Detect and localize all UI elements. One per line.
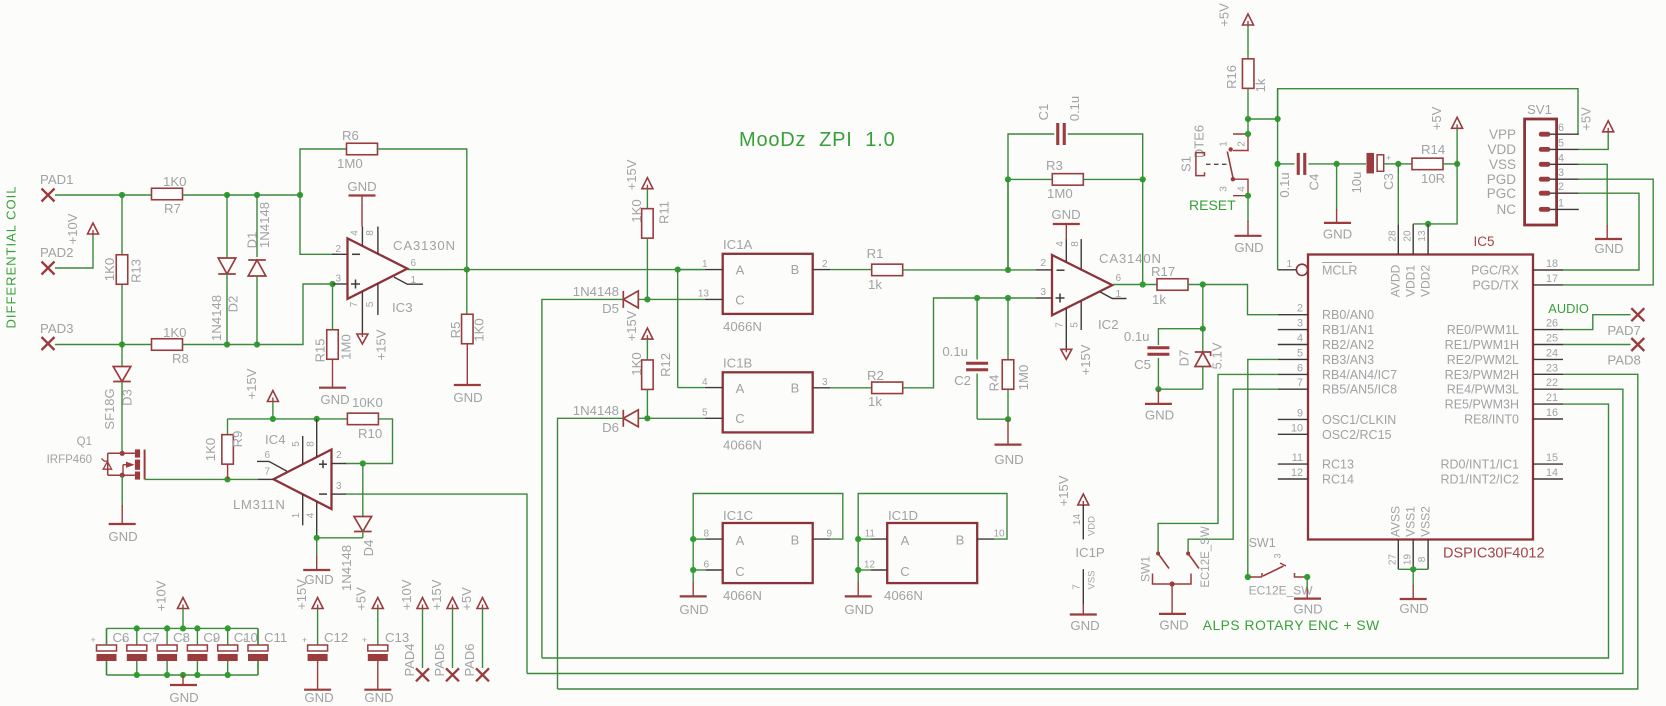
capacitor C9: [194, 625, 200, 631]
ground under push switch: [1294, 597, 1321, 599]
resistor R2: [872, 382, 903, 394]
svg-text:IC5: IC5: [1474, 234, 1495, 249]
svg-text:2: 2: [1297, 303, 1303, 315]
svg-text:+5V: +5V: [1429, 106, 1444, 130]
svg-text:RE5/PWM3H: RE5/PWM3H: [1445, 398, 1519, 412]
wire SV1 VSS to ground: [1579, 164, 1607, 226]
node junction C3 / AVDD: [1395, 161, 1401, 167]
wire IC2 output: [1112, 284, 1157, 286]
svg-text:3: 3: [1297, 318, 1303, 330]
IC1C pin 9 output: [813, 538, 830, 540]
IC5 top power pins AVDD VDD1 VDD2: [1397, 225, 1399, 255]
svg-text:CA3130N: CA3130N: [393, 238, 456, 253]
wire RE1 to PAD8: [1563, 344, 1631, 346]
svg-text:4066N: 4066N: [723, 438, 762, 453]
svg-text:C12: C12: [324, 630, 348, 645]
svg-text:A: A: [736, 533, 745, 548]
resistor R15: [332, 284, 334, 330]
wire R17 to RB0: [1188, 285, 1278, 315]
node junction R4 top: [1005, 295, 1011, 301]
IC5 pin 11 RC13: [1278, 463, 1308, 465]
capacitor C11: [257, 628, 259, 645]
svg-text:1: 1: [1286, 259, 1292, 270]
svg-text:C5: C5: [1134, 357, 1151, 372]
IC3 pin 7: [361, 291, 363, 334]
svg-text:R1: R1: [867, 246, 884, 261]
pad PAD7: [1631, 308, 1644, 321]
svg-text:RE1/PWM1H: RE1/PWM1H: [1445, 338, 1519, 352]
wire PAD4: [422, 609, 424, 669]
svg-text:MCLR: MCLR: [1322, 264, 1357, 278]
wire push switch to ground: [1306, 577, 1308, 590]
IC5 pin 22 RE4/PWM3L: [1533, 388, 1563, 390]
wire R11 to D5 node: [646, 238, 648, 299]
wire IC5 RB3 to push switch: [1248, 359, 1278, 577]
svg-text:GND: GND: [1594, 241, 1623, 256]
svg-text:7: 7: [264, 467, 270, 478]
svg-text:VDD1: VDD1: [1404, 265, 1418, 297]
svg-text:2: 2: [335, 244, 341, 255]
wire IC1B input riser: [677, 270, 679, 388]
IC2 pin 8: [1080, 239, 1082, 269]
supply +10V arrow cap bank: [178, 598, 189, 609]
svg-text:GND: GND: [453, 390, 482, 405]
svg-text:1N4148: 1N4148: [339, 545, 354, 591]
capacitor C8: [164, 625, 170, 631]
capacitor C1: [1008, 134, 1054, 270]
svg-text:+: +: [212, 635, 217, 645]
svg-text:4: 4: [1237, 186, 1248, 192]
svg-text:IC1A: IC1A: [723, 237, 753, 252]
svg-text:RESET: RESET: [1189, 197, 1236, 213]
svg-text:PGD/TX: PGD/TX: [1472, 278, 1519, 292]
svg-text:+15V: +15V: [1056, 475, 1071, 506]
svg-text:IC2: IC2: [1098, 317, 1119, 332]
svg-text:10: 10: [994, 529, 1006, 540]
svg-text:RE3/PWM2H: RE3/PWM2H: [1445, 368, 1519, 382]
svg-text:+15V: +15V: [374, 329, 389, 360]
IC1C pin 8: [706, 538, 723, 540]
svg-text:8: 8: [703, 529, 709, 540]
svg-text:PAD6: PAD6: [462, 644, 477, 677]
svg-text:4: 4: [1558, 152, 1564, 164]
resistor R6 feedback: [300, 149, 348, 195]
svg-text:MooDz ZPI 1.0: MooDz ZPI 1.0: [739, 129, 896, 151]
wire bus ENC_A RE5: [542, 404, 1609, 658]
ground under R5: [466, 345, 468, 386]
analog switch IC1B 4066N: [723, 372, 813, 432]
svg-text:GND: GND: [1145, 408, 1174, 423]
svg-text:+15V: +15V: [429, 579, 444, 610]
IC5 pin 5 RB3/AN3: [1278, 358, 1308, 360]
svg-text:10u: 10u: [1349, 172, 1364, 194]
svg-text:PAD3: PAD3: [40, 321, 73, 336]
wire D1 to R6 corner: [257, 194, 300, 196]
IC5 bottom power pins AVSS VSS1 VSS2: [1397, 540, 1399, 570]
svg-text:6: 6: [1115, 273, 1121, 284]
svg-text:1K0: 1K0: [163, 325, 186, 340]
SV1 pad pin 1: [1539, 207, 1551, 212]
svg-text:+15V: +15V: [1078, 344, 1093, 375]
svg-text:25: 25: [1546, 333, 1558, 345]
svg-text:0.1u: 0.1u: [1124, 329, 1150, 344]
svg-text:8: 8: [1070, 241, 1081, 247]
resistor R4: [1007, 298, 1009, 360]
IC1A pin 13: [705, 298, 723, 300]
svg-text:GND: GND: [304, 690, 333, 705]
IC5 pin 18 PGC/RX: [1533, 269, 1563, 271]
ground under C5: [1157, 389, 1159, 404]
node junction R15 top: [329, 281, 335, 287]
svg-text:+: +: [362, 635, 367, 645]
svg-text:R14: R14: [1421, 142, 1445, 157]
svg-text:6: 6: [1297, 362, 1303, 374]
svg-text:IC3: IC3: [392, 300, 413, 315]
svg-text:7: 7: [1072, 584, 1083, 590]
svg-text:B: B: [791, 533, 800, 548]
pad PAD8: [1631, 338, 1644, 351]
resistor R7: [152, 188, 183, 200]
svg-text:RB1/AN1: RB1/AN1: [1322, 323, 1374, 337]
svg-text:6: 6: [1558, 122, 1564, 134]
svg-text:EC12E_SW: EC12E_SW: [1249, 584, 1314, 598]
svg-text:1N4148: 1N4148: [573, 284, 619, 299]
capacitor C7: [134, 625, 140, 631]
wire to D1 bottom: [227, 344, 257, 346]
svg-text:+10V: +10V: [154, 580, 169, 611]
svg-text:D3: D3: [120, 389, 135, 406]
svg-text:C: C: [735, 293, 744, 308]
wire cap bank top rail: [107, 627, 259, 629]
wire S1 pin4 to ground: [1247, 196, 1249, 222]
wire R7 to D2: [183, 194, 228, 196]
wire RE0 to PAD7: [1563, 315, 1631, 330]
node junction R16 / MCLR net: [1245, 116, 1251, 122]
svg-text:RB0/AN0: RB0/AN0: [1322, 308, 1374, 322]
svg-text:1k: 1k: [1253, 78, 1268, 92]
wire C5 branch: [1158, 329, 1202, 345]
LM311 pin 7 stub: [258, 478, 274, 480]
svg-text:+: +: [121, 635, 126, 645]
svg-text:AVDD: AVDD: [1389, 264, 1403, 297]
svg-text:1: 1: [1558, 197, 1564, 209]
ground under IC1C: [680, 595, 707, 597]
IC1B pin 4: [705, 387, 723, 389]
supply +5V above R16: [1243, 14, 1254, 25]
svg-text:5: 5: [1070, 322, 1081, 328]
svg-text:+10V: +10V: [399, 579, 414, 610]
wire SV1 VDD to +5V: [1579, 132, 1608, 149]
svg-text:+15V: +15V: [244, 368, 259, 399]
node junction MCLR riser: [1275, 116, 1281, 122]
supply +10V arrow PAD4: [417, 598, 428, 609]
svg-text:R11: R11: [657, 201, 672, 224]
svg-text:3: 3: [1040, 287, 1046, 298]
svg-text:14: 14: [1546, 467, 1558, 479]
wire bus ENC_B RE3: [558, 374, 1638, 689]
svg-text:2: 2: [822, 259, 828, 270]
wire encoder common to ground: [1171, 584, 1173, 600]
node junction D6 / R12 / IC1B pin5: [644, 415, 650, 421]
node junction IC1A pin1 riser: [675, 267, 681, 273]
svg-text:5: 5: [1297, 347, 1303, 359]
capacitor C5: [1147, 346, 1169, 349]
resistor R1: [872, 264, 903, 276]
capacitor C3 10u polarized: [1337, 163, 1366, 165]
svg-text:+15V: +15V: [294, 579, 309, 610]
svg-text:6: 6: [264, 450, 270, 461]
resistor R13: [121, 195, 123, 254]
svg-text:7: 7: [1297, 377, 1303, 389]
wire D6 to IC1B pin5: [638, 417, 705, 419]
wire PAD3 row: [55, 344, 152, 346]
node junction R17 out / D7 branch: [1200, 281, 1206, 287]
wire IC1C pins to ground rail: [693, 538, 706, 540]
LM311 pin 6 balance stub: [257, 461, 287, 471]
supply +5V at SV1: [1603, 121, 1614, 132]
diode D6 1N4148: [623, 410, 638, 427]
wire VSS pins common: [1398, 568, 1428, 570]
svg-text:1N4148: 1N4148: [573, 403, 619, 418]
svg-text:R17: R17: [1151, 264, 1175, 279]
IC3 pin 5: [377, 284, 379, 315]
svg-text:VSS1: VSS1: [1404, 506, 1418, 537]
wire D2 to D1: [227, 194, 257, 196]
capacitor C10: [225, 625, 231, 631]
wire IC1B to R2: [830, 387, 872, 389]
svg-text:RD0/INT1/IC1: RD0/INT1/IC1: [1441, 458, 1520, 472]
svg-text:6: 6: [703, 560, 709, 571]
svg-text:SV1: SV1: [1527, 102, 1552, 117]
node junction D1 bottom: [254, 341, 260, 347]
svg-text:OSC1/CLKIN: OSC1/CLKIN: [1322, 413, 1396, 427]
svg-text:5: 5: [702, 408, 708, 419]
resistor R11: [646, 189, 648, 209]
wire VDD pins to +5V rail: [1412, 223, 1414, 226]
supply +15V below IC3 pin7: [357, 334, 368, 344]
ground under LM311: [303, 569, 330, 571]
svg-text:C13: C13: [385, 630, 409, 645]
supply +10V arrow: [88, 223, 99, 234]
svg-text:3: 3: [1558, 167, 1564, 179]
wire output to IC1A: [467, 269, 705, 271]
resistor R9: [227, 419, 229, 435]
IC5 pin 7 RB5/AN5/IC8: [1278, 388, 1308, 390]
svg-text:RE8/INT0: RE8/INT0: [1464, 413, 1519, 427]
IC5 pin 12 RC14: [1278, 478, 1308, 480]
wire IC1C feedback loop: [693, 494, 843, 540]
svg-text:12: 12: [1291, 467, 1303, 479]
node junction C1/R3 left riser: [1005, 267, 1011, 273]
svg-text:+10V: +10V: [65, 213, 80, 244]
svg-text:10R: 10R: [1421, 171, 1445, 186]
svg-text:RC14: RC14: [1322, 473, 1354, 487]
svg-text:GND: GND: [1051, 207, 1080, 222]
ground under cap bank: [182, 675, 184, 685]
svg-text:R5: R5: [448, 322, 463, 339]
svg-text:DIFFERENTIAL COIL: DIFFERENTIAL COIL: [4, 186, 19, 329]
svg-text:2: 2: [1237, 141, 1248, 147]
svg-text:+: +: [91, 635, 96, 645]
pad PAD1: [42, 189, 55, 202]
node junction PAD1/R13: [119, 192, 125, 198]
resistor R14: [1398, 163, 1412, 165]
svg-text:1M0: 1M0: [1016, 365, 1031, 391]
IC5 pin 17 PGD/TX: [1533, 284, 1563, 286]
wire PAD3 row to pin3 riser: [257, 284, 333, 345]
capacitor C13: [372, 598, 383, 609]
svg-text:GND: GND: [1070, 618, 1099, 633]
LM311 pin 8: [316, 419, 318, 457]
IC1D pin 12: [871, 569, 887, 571]
svg-text:GND: GND: [169, 690, 198, 705]
svg-text:GND: GND: [1293, 602, 1322, 617]
svg-text:8: 8: [306, 441, 317, 447]
svg-text:SF18G: SF18G: [102, 388, 117, 429]
svg-text:10K0: 10K0: [352, 395, 383, 410]
wire R3 node risers: [1007, 179, 1009, 270]
ground under C4: [1336, 164, 1338, 210]
wire R6 to output riser: [377, 149, 467, 270]
wire R8 to D2 bottom: [183, 344, 228, 346]
IC1C pin 6: [706, 569, 723, 571]
ground under C12: [304, 689, 331, 691]
svg-text:AVSS: AVSS: [1389, 506, 1403, 537]
svg-text:1: 1: [702, 259, 708, 270]
svg-text:3: 3: [335, 274, 341, 285]
ground under S1: [1235, 235, 1262, 237]
svg-text:LM311N: LM311N: [233, 497, 285, 512]
svg-text:15: 15: [1546, 452, 1558, 464]
svg-text:C4: C4: [1307, 174, 1322, 191]
svg-text:PAD4: PAD4: [402, 644, 417, 677]
svg-text:1k: 1k: [1152, 292, 1166, 307]
IC5 pin 3 RB1/AN1: [1278, 329, 1308, 331]
svg-text:IC1P: IC1P: [1075, 545, 1105, 560]
svg-text:19: 19: [1402, 554, 1413, 566]
node junction R9 bottom / LM311 pin7: [224, 476, 230, 482]
IC2 pin 5: [1080, 301, 1082, 330]
wire PAD1 to R7: [55, 194, 152, 196]
svg-text:PAD5: PAD5: [432, 644, 447, 677]
supply +5V above R14: [1452, 117, 1463, 128]
ground above IC3: [349, 194, 376, 196]
svg-text:23: 23: [1546, 362, 1558, 374]
svg-text:5: 5: [291, 441, 302, 447]
svg-text:VSS: VSS: [1489, 157, 1516, 172]
svg-text:R12: R12: [658, 353, 673, 377]
svg-text:RE4/PWM3L: RE4/PWM3L: [1447, 383, 1519, 397]
supply +15V above R12: [642, 328, 653, 339]
ground under R4: [1007, 419, 1009, 444]
wire R6 node to pin2: [300, 195, 337, 254]
IC1B pin 3 output: [813, 387, 830, 389]
resistor R16: [1247, 25, 1249, 59]
node junction D4 top: [360, 460, 366, 466]
diode D3 SF18G: [121, 345, 123, 367]
svg-text:21: 21: [1546, 392, 1558, 404]
diode D5 1N4148: [623, 291, 638, 308]
svg-text:RB5/AN5/IC8: RB5/AN5/IC8: [1322, 383, 1397, 397]
svg-text:0.1u: 0.1u: [1067, 96, 1082, 121]
resistor R3: [1008, 178, 1053, 180]
resistor R8: [152, 339, 183, 351]
svg-text:10: 10: [1291, 422, 1303, 434]
op-amp IC4 LM311N: [274, 450, 332, 510]
svg-text:22: 22: [1546, 377, 1558, 389]
wire MCLR riser: [1277, 89, 1279, 270]
wire D5 to IC1A pin13: [638, 298, 705, 300]
wire R12 to D6 node: [646, 390, 648, 419]
SV1 pad pin 2: [1539, 191, 1551, 196]
svg-text:1K0: 1K0: [203, 438, 218, 461]
pad PAD3: [42, 337, 55, 350]
svg-text:R6: R6: [342, 128, 359, 143]
svg-text:4: 4: [306, 512, 317, 518]
svg-text:B: B: [791, 381, 800, 396]
svg-text:3: 3: [1219, 186, 1230, 192]
svg-text:VSS2: VSS2: [1419, 506, 1433, 537]
svg-text:B: B: [791, 262, 800, 277]
power symbol IC1P VSS: [1082, 569, 1084, 605]
IC5 pin 15 RD0/INT1/IC1: [1533, 463, 1563, 465]
IC5 pin 1 MCLR bubble: [1296, 264, 1307, 275]
node junction R14 / +5V: [1454, 161, 1460, 167]
IC5 pin 23 RE3/PWM2H: [1533, 373, 1563, 375]
svg-text:18: 18: [1546, 258, 1558, 270]
IC5 pin 24 RE2/PWM2L: [1533, 358, 1563, 360]
S1 contact 3-4 box: [1233, 179, 1248, 196]
IC5 pin 14 RD1/INT2/IC2: [1533, 478, 1563, 480]
svg-text:RB3/AN3: RB3/AN3: [1322, 353, 1374, 367]
LM311 pin 2 stub: [332, 463, 347, 465]
IC5 pin 2 RB0/AN0: [1278, 314, 1308, 316]
wire R10 to LM311 pin2: [345, 419, 393, 464]
ground under Q1: [109, 523, 136, 525]
SV1 pad pin 4: [1539, 162, 1551, 167]
svg-text:VDD2: VDD2: [1419, 265, 1433, 297]
node junction D4 bottom: [314, 535, 320, 541]
svg-text:R2: R2: [867, 368, 884, 383]
svg-text:GND: GND: [364, 690, 393, 705]
wire S1 pin2 up: [1247, 119, 1249, 134]
IC3 pin 1 offset stub: [394, 277, 423, 284]
svg-text:9: 9: [1297, 407, 1303, 419]
svg-text:6: 6: [410, 258, 416, 269]
wire PAD5: [452, 609, 454, 669]
wire bank rail sides: [106, 628, 108, 645]
svg-text:28: 28: [1387, 230, 1398, 242]
svg-text:R4: R4: [987, 375, 1002, 392]
capacitor C6: [106, 628, 108, 645]
rotary encoder SW1 contact B: [1188, 554, 1199, 569]
pad PAD6: [476, 668, 489, 681]
svg-text:4: 4: [1297, 333, 1303, 345]
IC2 pin 7: [1065, 308, 1067, 349]
IC2 pin 2 stub: [1036, 269, 1052, 271]
wire IC1D feedback loop: [858, 494, 1007, 540]
svg-text:GND: GND: [320, 392, 349, 407]
svg-text:1K0: 1K0: [629, 352, 644, 375]
analog switch IC1C 4066N: [723, 523, 813, 583]
svg-text:11: 11: [1292, 452, 1303, 464]
zener diode D7 5.1V: [1202, 329, 1204, 352]
wire IC5 RB4 to encoder A: [1158, 374, 1278, 553]
wire SV1 PGC to IC5 PGC/RX: [1563, 193, 1639, 270]
svg-text:R10: R10: [358, 426, 382, 441]
ground under R15: [332, 359, 334, 387]
node junction D2 bottom: [224, 341, 230, 347]
